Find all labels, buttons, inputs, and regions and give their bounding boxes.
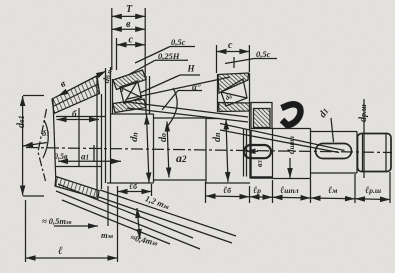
- rear bearing roller: [221, 79, 247, 106]
- centerline: [26, 148, 392, 153]
- label l_p: [253, 185, 261, 196]
- label a2: [176, 151, 187, 165]
- dimension 0.5v and a1 chain: [58, 108, 121, 166]
- label delta1: [42, 128, 50, 138]
- gear-bearing spacer lines: [106, 67, 111, 183]
- label l_shpl: [280, 185, 299, 196]
- label H with leader: [187, 64, 196, 74]
- front l_b dimension: [118, 184, 152, 262]
- label d_p front rotated with dimension: [147, 115, 150, 183]
- roller mark rear: [225, 92, 234, 102]
- label v: [126, 19, 131, 30]
- label 0.5m: [42, 216, 72, 226]
- shaft a2 section: [154, 118, 207, 183]
- shaft lm section: [311, 132, 358, 174]
- locknut: [251, 103, 272, 129]
- label m: [101, 230, 113, 240]
- front bearing outer ring: [113, 70, 146, 90]
- angle alpha arc: [166, 88, 177, 128]
- gear large end face: [53, 99, 56, 186]
- dimension C (left): [117, 38, 146, 70]
- tooth pitch extension line 1: [58, 184, 193, 238]
- dimension 1.2m slanted: [137, 208, 140, 239]
- gear hub outline: [56, 76, 106, 197]
- label b (tooth width) slanted: [59, 78, 68, 90]
- label b hub: [72, 109, 77, 119]
- roller mark 3: [119, 86, 124, 94]
- front bearing side faces: [113, 76, 147, 114]
- label d_p rear rotated with dimension: [226, 120, 228, 183]
- tooth pitch extension line 3: [62, 200, 170, 244]
- shaft journal front: [107, 114, 154, 183]
- label 1.2m: [144, 193, 171, 211]
- label 0.5C left with leader: [171, 37, 186, 47]
- front bearing roller: [120, 81, 142, 104]
- tooth pitch extension line 5: [100, 190, 236, 236]
- label 0.5v: [54, 152, 68, 161]
- dimension v along rim: [58, 71, 106, 96]
- label C right: [228, 40, 233, 51]
- label l_b front: [129, 181, 137, 192]
- label d b.p rotated: [101, 68, 114, 84]
- rear bearing outer ring: [218, 73, 249, 93]
- label l_m: [328, 185, 337, 196]
- keyway slot 2: [316, 144, 352, 159]
- label 0.5C right with leader: [256, 49, 271, 59]
- label 0.25H with leader: [158, 51, 180, 61]
- delta1 angle leader: [23, 120, 48, 158]
- roller axis line A: [127, 77, 230, 99]
- dimension b (hub): [57, 119, 100, 121]
- label C left: [129, 35, 134, 46]
- label alpha with leader: [192, 82, 201, 92]
- gear pitch-cone dash-dot line: [38, 109, 47, 181]
- nut: [358, 134, 392, 172]
- front bearing inner ring: [113, 99, 146, 113]
- roughness symbol (dark glyph): [282, 104, 301, 125]
- label 0.4m: [130, 232, 159, 247]
- roller axis line B: [127, 102, 248, 117]
- label l_b rear: [223, 185, 231, 196]
- dimension C (right): [217, 45, 250, 73]
- dimension d_v1 vertical: [23, 96, 44, 197]
- rear bearing side faces: [218, 73, 250, 130]
- label d_r.sh rotated with leader: [358, 104, 369, 122]
- tooth pitch extension line 2: [56, 191, 200, 249]
- dimension T: [112, 8, 145, 76]
- shaft journal rear: [206, 119, 250, 184]
- shaft spline section: [273, 129, 311, 179]
- dimension l overall: [26, 200, 118, 262]
- slot1 internal arrow: [246, 150, 259, 152]
- dimension v (top): [112, 28, 145, 30]
- label a1: [81, 152, 89, 162]
- bearing right spacer: [149, 76, 151, 114]
- label l: [58, 245, 63, 257]
- vertical ext from hub corner: [107, 186, 109, 226]
- label d1 slanted with leader: [317, 106, 331, 120]
- leader line pair to keyway 2: [220, 124, 345, 153]
- keyway slot 1 (bold): [244, 145, 271, 158]
- gear top rim hatch: [52, 76, 100, 114]
- bottom dimension chain extension lines: [206, 172, 391, 203]
- label v3 rotated: [255, 160, 264, 167]
- shaft lp bottom step (bold): [251, 130, 274, 179]
- label T: [126, 4, 133, 15]
- label d_v1 rotated: [16, 115, 27, 128]
- label d_shpl rotated with arrow: [286, 136, 296, 154]
- roller axis line B2: [127, 108, 248, 122]
- shaft step verticals above slot1: [244, 129, 247, 177]
- label d_o rotated with dimension: [167, 122, 169, 178]
- label l_r.sh: [365, 185, 381, 196]
- bottom dimension chain lines: [206, 196, 391, 200]
- tooth pitch extension line 4: [99, 197, 232, 243]
- gear bottom rim hatch: [55, 177, 99, 199]
- rear bearing inner ring: [219, 103, 250, 112]
